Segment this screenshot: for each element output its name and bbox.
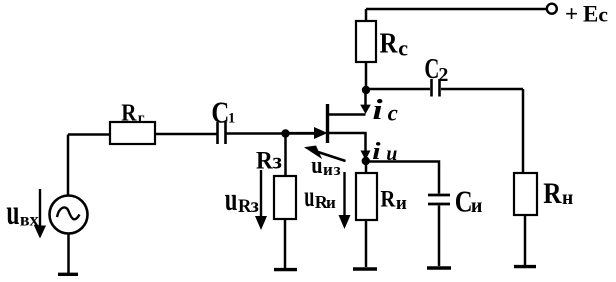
svg-text:н: н xyxy=(562,188,573,209)
wire Ri top xyxy=(365,161,368,173)
node drain dot xyxy=(362,86,370,94)
capacitor Ci xyxy=(428,195,450,204)
wire Rz vertical bottom xyxy=(284,219,287,268)
wire drain horizontal xyxy=(328,113,366,116)
svg-text:з: з xyxy=(251,195,259,217)
resistor Rc xyxy=(356,21,376,62)
svg-text:+: + xyxy=(565,1,578,26)
svg-text:R: R xyxy=(380,27,398,59)
current arrow i_c xyxy=(360,105,371,114)
ground (Ri) xyxy=(353,267,377,270)
wire Rz vertical top xyxy=(284,134,287,177)
wire Ci bottom xyxy=(438,206,441,267)
label Rn xyxy=(543,176,573,210)
svg-text:Ec: Ec xyxy=(583,2,608,27)
arrow u_iz (diagonal) xyxy=(304,146,346,162)
svg-text:u: u xyxy=(225,182,238,218)
label i_c xyxy=(373,95,398,126)
wire Rc bottom to drain node xyxy=(365,62,368,90)
wire Ri bottom xyxy=(365,220,368,267)
ground (Rz) xyxy=(274,268,297,271)
wire main input horizontal xyxy=(68,134,315,135)
label +Ec xyxy=(565,1,608,26)
arrow u_R3 xyxy=(255,170,267,230)
node gate dot xyxy=(281,129,289,137)
label C2 xyxy=(424,54,448,86)
transistor VT channel bar xyxy=(326,104,329,143)
wire input left vertical xyxy=(67,135,70,197)
svg-text:R: R xyxy=(256,147,273,175)
svg-text:u: u xyxy=(311,151,322,178)
node source dot xyxy=(362,157,370,165)
label Rz xyxy=(256,147,282,175)
svg-text:2: 2 xyxy=(438,64,448,86)
svg-text:u: u xyxy=(6,192,19,232)
current arrow i_u xyxy=(361,151,371,161)
svg-text:i: i xyxy=(372,138,381,165)
wire drain vertical xyxy=(364,90,367,105)
capacitor C2 xyxy=(432,79,440,97)
resistor Ri xyxy=(356,173,377,220)
label Rg xyxy=(121,99,145,127)
label C1 xyxy=(211,96,235,130)
label Rc xyxy=(380,27,409,61)
wire Rn vertical bottom xyxy=(524,215,527,265)
svg-text:C: C xyxy=(424,54,439,85)
arrow u_vx xyxy=(34,189,46,239)
arrow u_Ri xyxy=(339,172,351,229)
label u_Ri xyxy=(304,181,336,214)
capacitor C1 xyxy=(218,122,226,144)
svg-text:и: и xyxy=(396,193,407,214)
svg-text:R: R xyxy=(380,185,396,212)
label u_iz xyxy=(311,151,341,179)
wire Rc top xyxy=(365,9,368,21)
svg-text:з: з xyxy=(273,149,282,174)
svg-text:из: из xyxy=(323,160,342,179)
wire source bottom xyxy=(67,234,70,274)
label Ri xyxy=(380,185,407,214)
svg-text:C: C xyxy=(211,96,229,130)
svg-text:R: R xyxy=(543,176,562,210)
ground (Rn) xyxy=(514,265,536,268)
wire source node to Ci xyxy=(366,162,439,194)
source sine wave xyxy=(57,207,80,219)
wire C2 right segment xyxy=(441,88,523,91)
svg-text:R: R xyxy=(121,99,137,126)
svg-text:вх: вх xyxy=(20,210,39,230)
svg-text:u: u xyxy=(304,181,314,214)
svg-text:с: с xyxy=(398,35,408,60)
label u_vx xyxy=(6,192,38,232)
svg-text:и: и xyxy=(471,195,483,217)
source circle uvx xyxy=(50,196,88,234)
resistor Rz xyxy=(274,176,296,219)
resistor Rn xyxy=(514,173,537,215)
svg-text:и: и xyxy=(326,193,336,212)
svg-text:г: г xyxy=(138,110,145,126)
wire source horizontal (transistor) xyxy=(329,133,366,151)
ground (Ci) xyxy=(427,266,451,269)
transistor gate arrow xyxy=(314,127,328,139)
ground (source) xyxy=(58,273,78,276)
terminal circle +Ec xyxy=(547,4,557,14)
svg-text:и: и xyxy=(386,143,397,165)
label i_u xyxy=(372,138,397,166)
label u_R3 xyxy=(225,182,259,218)
svg-text:i: i xyxy=(373,95,383,126)
label Ci xyxy=(455,185,483,219)
svg-text:c: c xyxy=(388,100,398,125)
wire top supply rail xyxy=(366,8,546,11)
resistor Rg xyxy=(110,122,155,144)
wire Rn vertical top xyxy=(522,89,525,173)
wire C2 left segment xyxy=(366,88,430,91)
svg-text:1: 1 xyxy=(228,110,235,126)
transistor gate wire xyxy=(286,132,317,134)
